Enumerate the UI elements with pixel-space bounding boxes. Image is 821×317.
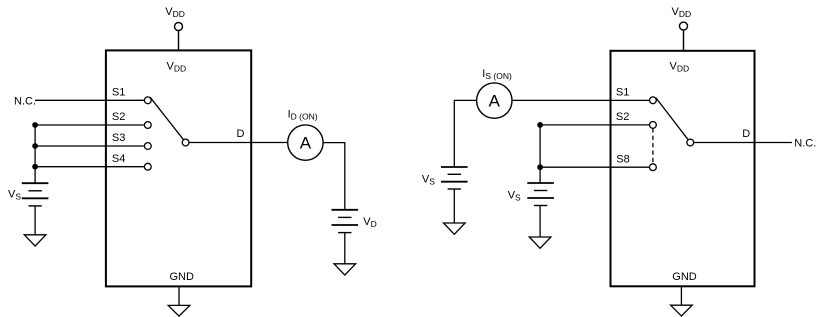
wire ammeter to pin S1 (right) bbox=[512, 99, 650, 101]
wire VS to ground bbox=[34, 206, 36, 235]
terminal VDD (left) bbox=[175, 23, 183, 31]
battery VS (left) bbox=[22, 183, 49, 206]
ground (VS under bus) bbox=[529, 237, 551, 248]
ground (GND right) bbox=[671, 305, 693, 316]
svg-text:S1: S1 bbox=[112, 86, 125, 98]
contact S1 (left) bbox=[144, 97, 151, 104]
mux U2 (right box) bbox=[611, 51, 755, 286]
wire ammeter to VD bbox=[323, 143, 345, 210]
wire GND to ground (left) bbox=[178, 286, 180, 305]
svg-text:S2: S2 bbox=[616, 111, 629, 123]
ground (VS under ammeter) bbox=[444, 223, 466, 234]
svg-text:D: D bbox=[237, 128, 245, 140]
svg-text:N.C.: N.C. bbox=[794, 138, 816, 150]
ammeter A2 circle bbox=[477, 83, 512, 118]
contact S3 (left) bbox=[144, 143, 151, 150]
junction S3 bus bbox=[32, 143, 38, 149]
wire bus to pin S4 bbox=[35, 166, 144, 168]
switch arm S1-D (left) bbox=[150, 97, 183, 139]
wire bus S2-S4 down to VS bbox=[34, 125, 36, 183]
battery VS (right, under ammeter) bbox=[441, 167, 468, 189]
ground (GND left) bbox=[168, 305, 190, 316]
wire VD to ground bbox=[344, 233, 346, 264]
wire ammeter to VS (right) bbox=[454, 100, 476, 167]
wire GND to ground (right) bbox=[680, 286, 682, 305]
wire VS to ground (right, under bus) bbox=[539, 206, 541, 238]
wire N.C. to pin S1 bbox=[35, 99, 144, 101]
junction S4 bus bbox=[32, 164, 38, 170]
switch pole contact D (right) bbox=[687, 139, 694, 146]
wire VDD terminal to U2 (right) bbox=[683, 30, 685, 51]
svg-text:A: A bbox=[300, 133, 312, 152]
switch pole contact D (left) bbox=[182, 139, 189, 146]
svg-text:S3: S3 bbox=[112, 132, 125, 144]
contact S8 (right) bbox=[650, 164, 657, 171]
ground (VD) bbox=[334, 264, 356, 275]
omitted-pins dashed line S2..S8 bbox=[652, 128, 654, 164]
battery VD bbox=[332, 210, 359, 233]
wire bus to pin S2 (right) bbox=[540, 124, 649, 126]
svg-text:N.C.: N.C. bbox=[14, 95, 36, 107]
junction S2 bus bbox=[32, 122, 38, 128]
ground (VS left) bbox=[24, 235, 46, 246]
mux U1 (left box) bbox=[106, 50, 251, 286]
wire bus to pin S3 bbox=[35, 145, 144, 147]
svg-text:GND: GND bbox=[672, 271, 697, 283]
wire bus to pin S2 bbox=[35, 124, 144, 126]
battery VS (right, under bus) bbox=[527, 183, 554, 206]
wire bus to pin S8 (right) bbox=[540, 166, 649, 168]
svg-text:S4: S4 bbox=[112, 153, 125, 165]
switch arm S1-D (right) bbox=[656, 98, 689, 140]
svg-text:S1: S1 bbox=[616, 87, 629, 99]
svg-text:GND: GND bbox=[170, 271, 195, 283]
contact S2 (left) bbox=[144, 122, 151, 129]
wire D to N.C. (right) bbox=[694, 142, 792, 144]
wire bus S2-S8 down to VS (right) bbox=[539, 125, 541, 183]
contact S2 (right) bbox=[650, 122, 657, 129]
wire VS to ground (right, under ammeter) bbox=[453, 189, 455, 223]
svg-text:D: D bbox=[742, 128, 750, 140]
junction S2 bus (right) bbox=[537, 122, 543, 128]
wire VDD terminal to U1 (left) bbox=[178, 31, 180, 52]
ammeter A1 circle bbox=[288, 125, 323, 160]
wire D to ammeter bbox=[189, 142, 288, 144]
junction S8 bus (right) bbox=[537, 164, 543, 170]
svg-text:S2: S2 bbox=[112, 111, 125, 123]
contact S4 (left) bbox=[144, 163, 151, 170]
contact S1 (right) bbox=[650, 97, 657, 104]
svg-text:A: A bbox=[489, 91, 501, 110]
terminal VDD (right) bbox=[680, 22, 688, 30]
svg-text:S8: S8 bbox=[616, 153, 629, 165]
